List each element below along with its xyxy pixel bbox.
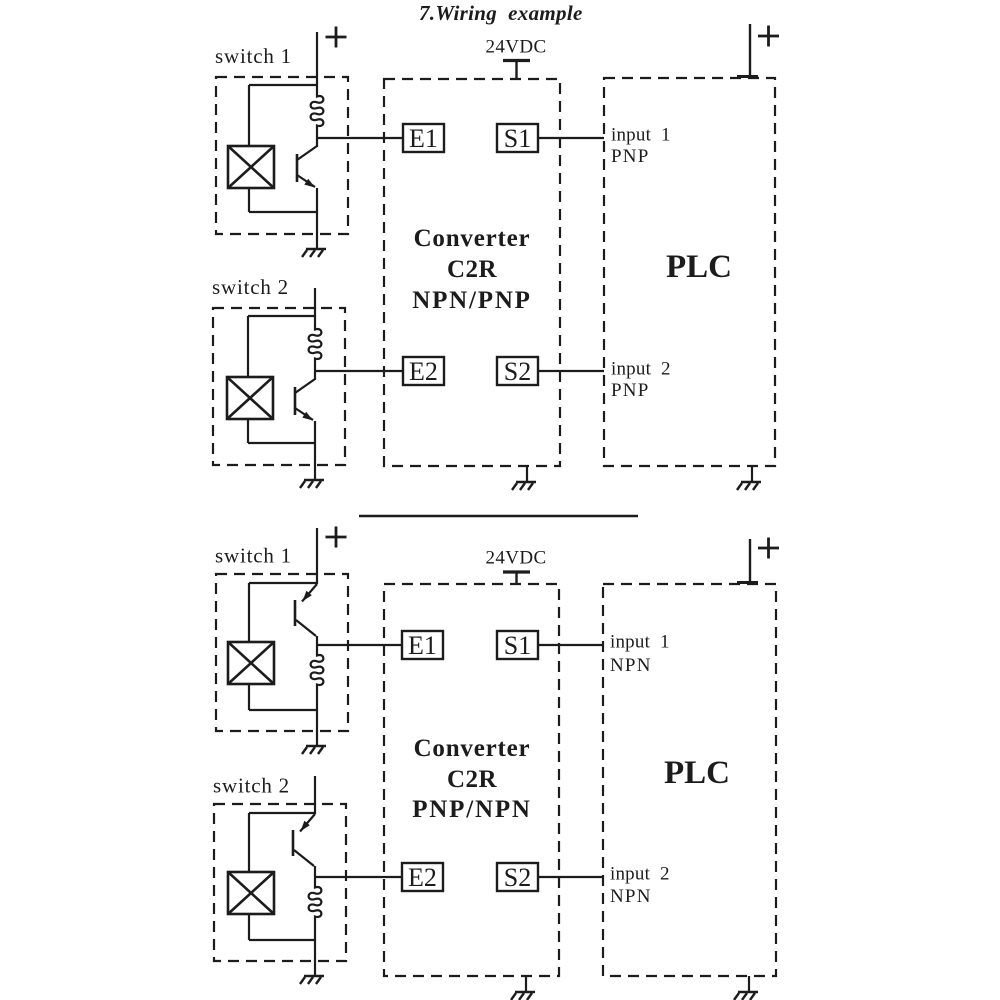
- switch 1 left wire upper segment: [248, 583, 250, 642]
- svg-text:PNP/NPN: PNP/NPN: [412, 796, 532, 823]
- PLC ground stem (top): [751, 466, 753, 482]
- switch 2 bottom wire (sensor to emitter rail): [248, 442, 315, 444]
- svg-text:input 1: input 1: [610, 632, 670, 653]
- 24VDC supply terminal symbol (bottom): [503, 572, 530, 585]
- switch 2 left wire upper segment: [248, 813, 250, 872]
- wire: switch 2 output to E2 (top): [315, 370, 403, 372]
- switch 2 top wire (sensor to supply rail): [248, 315, 315, 317]
- switch 1 wire resistor to bottom rail: [316, 687, 318, 710]
- svg-text:7.Wiring example: 7.Wiring example: [419, 1, 583, 25]
- svg-text:S2: S2: [504, 863, 531, 892]
- converter ground symbol (top): [512, 482, 536, 490]
- 24VDC supply terminal symbol (top): [503, 61, 530, 81]
- svg-text:E2: E2: [409, 357, 438, 386]
- switch 2 supply stem: [314, 288, 316, 327]
- switch 1 +V plus sign: [326, 27, 347, 48]
- svg-text:Converter: Converter: [414, 735, 531, 762]
- switch 1 load resistor: [311, 653, 324, 687]
- converter C2R enclosure (top, dashed): [384, 79, 560, 466]
- PLC ground symbol (bottom): [734, 992, 758, 1000]
- PLC +V supply stem (top): [737, 24, 758, 78]
- converter ground stem (bottom): [525, 976, 527, 992]
- wire: switch 2 output to E2 (bottom): [315, 876, 402, 878]
- terminal E2 (top): [403, 357, 444, 386]
- switch 1 ground stem: [316, 212, 318, 249]
- switch 1 +V plus sign: [326, 527, 347, 548]
- switch 1 bottom wire (sensor to resistor rail): [249, 709, 317, 711]
- svg-text:PLC: PLC: [666, 249, 732, 285]
- svg-text:Converter: Converter: [414, 225, 531, 252]
- switch 2 enclosure (dashed): [214, 804, 346, 961]
- svg-text:NPN: NPN: [610, 655, 652, 676]
- terminal S2 (top): [497, 357, 538, 386]
- svg-text:input 1: input 1: [611, 125, 671, 146]
- switch 1 ground symbol: [302, 746, 326, 754]
- switch 2 left wire upper segment: [247, 316, 249, 377]
- switch 2 ground stem: [314, 443, 316, 480]
- svg-text:E1: E1: [409, 124, 438, 153]
- terminal E1 (bottom): [402, 631, 443, 660]
- switch 1 +V supply stem: [316, 32, 318, 94]
- svg-text:switch 1: switch 1: [215, 544, 292, 568]
- PLC ground stem (bottom): [748, 976, 750, 992]
- svg-text:switch 2: switch 2: [213, 774, 290, 798]
- switch 2 ground symbol: [300, 480, 324, 488]
- switch 2 wire collector to output node: [314, 877, 316, 885]
- svg-text:NPN: NPN: [610, 886, 652, 907]
- switch 1 +V supply stem: [316, 528, 318, 584]
- PLC enclosure (bottom, dashed): [603, 584, 776, 976]
- wire: S2 to PLC input 2 (bottom): [538, 876, 603, 878]
- switch 2 load resistor: [309, 885, 322, 919]
- terminal S1 (top): [497, 124, 538, 153]
- svg-text:E1: E1: [408, 631, 437, 660]
- switch 2 left wire lower segment: [248, 914, 250, 940]
- switch 2 proximity sensor element (crossed box): [228, 872, 274, 914]
- svg-text:24VDC: 24VDC: [485, 548, 546, 569]
- PLC enclosure (top, dashed): [604, 78, 775, 466]
- wire: S2 to PLC input 2 (top): [538, 370, 604, 372]
- switch 1 ground stem: [316, 710, 318, 746]
- switch 2 wire resistor to bottom rail: [314, 919, 316, 940]
- switch 1 top wire (sensor to supply rail): [249, 582, 317, 584]
- switch 2 ground symbol: [300, 976, 324, 984]
- switch 2 left wire lower segment: [247, 419, 249, 443]
- PLC +V plus sign (top): [758, 26, 779, 47]
- converter ground stem (top): [526, 466, 528, 482]
- switch 1 emitter wire: [316, 188, 318, 212]
- svg-text:E2: E2: [408, 863, 437, 892]
- switch 1 top wire (sensor to supply rail): [249, 84, 317, 86]
- svg-text:S1: S1: [504, 631, 531, 660]
- wire: S1 to PLC input 1 (top): [538, 137, 604, 139]
- converter text block (top): Converter C2R NPN/PNP: [412, 225, 532, 314]
- switch 1 PNP output transistor: [295, 584, 317, 645]
- wire: switch 1 output to E1 (top): [317, 137, 403, 139]
- converter text block (bottom): Converter C2R PNP/NPN: [412, 735, 532, 823]
- switch 1 wire collector to output node: [316, 645, 318, 653]
- svg-text:NPN/PNP: NPN/PNP: [412, 287, 532, 314]
- switch 1 wire resistor to output node: [316, 128, 318, 138]
- converter ground symbol (bottom): [511, 992, 535, 1000]
- PLC +V supply stem (bottom): [737, 539, 758, 584]
- switch 2 proximity sensor element (crossed box): [227, 377, 273, 419]
- switch 1 left wire lower segment: [248, 684, 250, 710]
- svg-text:S2: S2: [504, 357, 531, 386]
- switch 2 wire resistor to output node: [314, 361, 316, 371]
- separator rule between diagrams: [359, 515, 638, 518]
- switch 1 left wire upper segment: [248, 85, 250, 146]
- PLC +V plus sign (bottom): [758, 538, 779, 559]
- svg-text:S1: S1: [504, 124, 531, 153]
- wire: S1 to PLC input 1 (bottom): [538, 644, 603, 646]
- svg-text:PLC: PLC: [664, 755, 730, 791]
- wire: switch 1 output to E1 (bottom): [317, 644, 402, 646]
- converter C2R enclosure (bottom, dashed): [384, 584, 559, 976]
- switch 1 bottom wire (sensor to emitter rail): [249, 211, 317, 213]
- switch 1 enclosure (dashed): [216, 574, 348, 731]
- switch 2 ground stem: [314, 940, 316, 976]
- svg-text:PNP: PNP: [611, 380, 649, 401]
- switch 1 proximity sensor element (crossed box): [228, 642, 274, 684]
- switch 2 emitter wire: [314, 421, 316, 443]
- PLC ground symbol (top): [737, 482, 761, 490]
- switch 2 enclosure (dashed): [213, 308, 345, 465]
- switch 1 enclosure (dashed): [216, 77, 348, 234]
- switch 1 load resistor: [311, 94, 324, 128]
- switch 2 supply stem: [314, 776, 316, 814]
- terminal E2 (bottom): [402, 863, 443, 892]
- terminal E1 (top): [403, 124, 444, 153]
- switch 1 NPN output transistor: [297, 138, 317, 188]
- svg-text:C2R: C2R: [447, 256, 498, 283]
- switch 2 bottom wire (sensor to resistor rail): [249, 939, 315, 941]
- switch 1 left wire lower segment: [248, 188, 250, 212]
- svg-text:24VDC: 24VDC: [485, 37, 546, 58]
- svg-text:C2R: C2R: [447, 766, 498, 793]
- switch 2 NPN output transistor: [295, 371, 315, 421]
- terminal S2 (bottom): [497, 863, 538, 892]
- terminal S1 (bottom): [497, 631, 538, 660]
- svg-text:switch 2: switch 2: [212, 275, 289, 299]
- switch 1 proximity sensor element (crossed box): [228, 146, 274, 188]
- svg-text:PNP: PNP: [611, 146, 649, 167]
- svg-text:input 2: input 2: [610, 864, 670, 885]
- svg-text:switch 1: switch 1: [215, 44, 292, 68]
- switch 2 top wire (sensor to supply rail): [249, 812, 315, 814]
- switch 1 ground symbol: [302, 249, 326, 257]
- switch 2 load resistor: [309, 327, 322, 361]
- svg-text:input 2: input 2: [611, 359, 671, 380]
- switch 2 PNP output transistor: [293, 814, 315, 877]
